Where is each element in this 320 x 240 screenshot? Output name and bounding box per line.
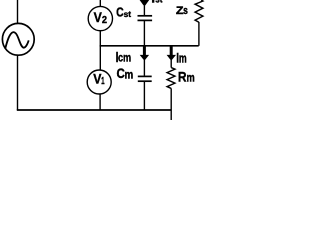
voltmeter V2	[88, 6, 112, 30]
svg-text:C: C	[116, 66, 124, 81]
svg-text:V: V	[94, 9, 102, 25]
svg-text:m: m	[179, 52, 187, 66]
svg-text:s: s	[183, 5, 188, 17]
wire: top stub above AC source	[17, 0, 19, 23]
voltmeter V1	[87, 70, 111, 94]
ground stub below bottom bus	[170, 110, 172, 120]
wire: V1 bottom to bottom bus	[99, 94, 101, 110]
svg-text:R: R	[178, 69, 187, 85]
wire: top stub above V2	[99, 0, 101, 7]
capacitor Cst	[138, 15, 153, 17]
wire: AC source bottom to bottom bus	[17, 55, 19, 110]
svg-text:1: 1	[101, 75, 105, 87]
wire: Im arrow to Rm	[170, 60, 172, 68]
capacitor Cm	[138, 75, 152, 77]
wire: Rm bottom to bottom bus	[170, 88, 172, 110]
current arrow Icm (down) below mid bus	[143, 46, 146, 55]
svg-text:m: m	[187, 72, 195, 85]
svg-text:V: V	[93, 71, 102, 87]
resistor Rm	[167, 68, 175, 89]
wire: Icm arrow to Cm	[143, 60, 145, 76]
bottom bus wire	[17, 109, 171, 111]
resistor Zs	[195, 0, 203, 22]
svg-text:m: m	[125, 69, 134, 82]
svg-text:I: I	[151, 0, 155, 6]
wire: Zs bottom to mid bus	[198, 22, 200, 46]
mid bus wire	[100, 45, 199, 47]
svg-text:2: 2	[102, 14, 107, 25]
current arrow Ist (down) at top of Cst branch	[140, 0, 150, 7]
wire: Cst bottom to mid bus	[143, 20, 145, 45]
wire: Ist arrow to Cst	[143, 6, 145, 15]
svg-text:cm: cm	[118, 51, 131, 65]
svg-text:st: st	[155, 0, 163, 6]
svg-text:st: st	[124, 9, 132, 19]
AC source V_in	[2, 23, 34, 55]
current arrow Im (down) below mid bus	[170, 46, 173, 55]
wire: V2 bottom through mid bus to V1 top	[99, 31, 101, 71]
wire: Cm bottom to bottom bus	[143, 81, 145, 110]
